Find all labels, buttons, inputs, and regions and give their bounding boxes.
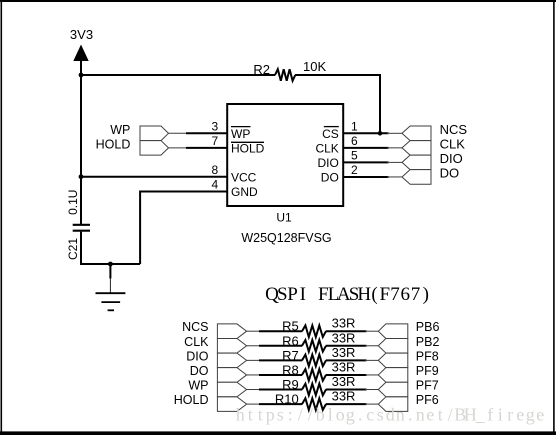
resistor R2 xyxy=(275,69,295,81)
wire R10 to PF6 xyxy=(326,403,367,405)
svg-text:b: b xyxy=(316,405,325,425)
wire C21 to GND net xyxy=(81,232,140,264)
svg-text:DIO: DIO xyxy=(186,349,209,363)
svg-text:33R: 33R xyxy=(332,316,356,331)
sheet border bottom bar xyxy=(0,431,556,435)
svg-text:f: f xyxy=(487,405,493,425)
resistor R10 33R xyxy=(302,398,326,410)
wire DO to R8 xyxy=(247,374,261,376)
junction ground tap xyxy=(108,262,113,267)
svg-text:/: / xyxy=(308,405,313,425)
port PB6 (bottom right) xyxy=(378,324,408,339)
port DIO (bottom left) xyxy=(217,353,246,368)
wire pin 6 to port CLK xyxy=(343,147,388,149)
wire pin 2 to port DO xyxy=(343,176,388,178)
svg-text:33R: 33R xyxy=(332,345,356,360)
wire 3V3 rail to VCC pin 8 xyxy=(81,176,227,178)
sheet border left xyxy=(1,0,3,433)
svg-text:HOLD: HOLD xyxy=(231,141,265,155)
svg-text::: : xyxy=(288,405,293,425)
resistor R5 33R xyxy=(302,325,326,337)
svg-text:U1: U1 xyxy=(276,211,292,225)
svg-text:DO: DO xyxy=(190,364,209,378)
svg-text:d: d xyxy=(386,405,395,425)
svg-text:c: c xyxy=(366,405,374,425)
port NCS (right) xyxy=(402,126,431,141)
svg-text:I: I xyxy=(300,284,306,305)
svg-text:WP: WP xyxy=(231,127,250,141)
svg-text:R9: R9 xyxy=(282,377,299,392)
svg-text:n: n xyxy=(416,405,425,425)
port DO (bottom left) xyxy=(217,368,246,383)
svg-text:7: 7 xyxy=(390,284,400,305)
svg-text:.: . xyxy=(358,405,363,425)
port PF7 (bottom right) xyxy=(378,382,408,397)
port PB2 (bottom right) xyxy=(378,339,408,354)
sheet border right xyxy=(553,0,555,433)
svg-text:PF7: PF7 xyxy=(416,379,439,393)
svg-text:DO: DO xyxy=(321,171,339,185)
svg-text:s: s xyxy=(377,405,384,425)
svg-text:PF9: PF9 xyxy=(416,364,439,378)
svg-text:HOLD: HOLD xyxy=(96,138,131,152)
wire 3V3 stem to VCC rail xyxy=(80,60,82,177)
svg-text:NCS: NCS xyxy=(182,320,208,334)
svg-text:WP: WP xyxy=(110,123,130,137)
svg-text:0.1U: 0.1U xyxy=(66,190,80,215)
capacitor C21 xyxy=(73,224,90,226)
svg-text:PB6: PB6 xyxy=(416,320,440,334)
wire WP to R9 xyxy=(247,389,261,391)
port PF6 (bottom right) xyxy=(378,397,408,412)
wire R6 to PB2 xyxy=(326,345,367,347)
svg-text:PB2: PB2 xyxy=(416,335,440,349)
svg-text:R2: R2 xyxy=(253,62,270,77)
wire CLK to R6 xyxy=(247,345,261,347)
svg-text:10K: 10K xyxy=(303,59,326,74)
svg-text:R5: R5 xyxy=(282,319,299,334)
port PF9 (bottom right) xyxy=(378,368,408,383)
svg-text:WP: WP xyxy=(188,379,208,393)
svg-text:6: 6 xyxy=(351,134,358,148)
resistor R7 33R xyxy=(302,355,326,367)
svg-text:s: s xyxy=(277,405,284,425)
svg-text:6: 6 xyxy=(401,284,411,305)
svg-text:5: 5 xyxy=(351,148,358,162)
svg-text:7: 7 xyxy=(212,134,219,148)
svg-text:C21: C21 xyxy=(66,238,80,260)
svg-text:h: h xyxy=(236,405,245,425)
svg-text:/: / xyxy=(448,405,453,425)
svg-text:NCS: NCS xyxy=(440,122,468,137)
svg-text:g: g xyxy=(346,405,355,425)
svg-text:l: l xyxy=(328,405,333,425)
svg-text:4: 4 xyxy=(212,178,219,192)
wire R5 to PB6 xyxy=(326,330,367,332)
svg-text:33R: 33R xyxy=(332,330,356,345)
wire NCS to R5 xyxy=(247,330,261,332)
port CLK (right) xyxy=(402,141,431,156)
svg-text:e: e xyxy=(516,405,524,425)
svg-text:n: n xyxy=(396,405,405,425)
svg-text:r: r xyxy=(507,405,513,425)
svg-text:PF8: PF8 xyxy=(416,349,439,363)
svg-text:2: 2 xyxy=(351,163,358,177)
port HOLD (left) xyxy=(140,141,169,156)
wire R9 to PF7 xyxy=(326,389,367,391)
svg-text:F: F xyxy=(380,284,391,305)
wire GND net to pin 4 xyxy=(140,192,227,265)
wire R2 to CS net xyxy=(295,75,380,133)
svg-text:CLK: CLK xyxy=(184,335,209,349)
sheet border top xyxy=(0,0,556,2)
svg-text:P: P xyxy=(287,284,298,305)
port DIO (right) xyxy=(402,155,431,170)
wire HOLD port to pin 7 xyxy=(169,147,188,149)
port DO (right) xyxy=(402,170,431,185)
resistor R9 33R xyxy=(302,384,326,396)
port PF8 (bottom right) xyxy=(378,353,408,368)
resistor R6 33R xyxy=(302,340,326,352)
svg-text:): ) xyxy=(423,284,429,305)
svg-text:DIO: DIO xyxy=(317,156,338,170)
junction VCC rail xyxy=(79,174,84,179)
power 3V3 symbol xyxy=(73,45,88,62)
watermark xyxy=(236,405,545,425)
wire WP port to pin 3 xyxy=(169,132,188,134)
svg-text:CS: CS xyxy=(322,127,339,141)
svg-text:CLK: CLK xyxy=(440,137,466,152)
wire HOLD to R10 xyxy=(247,403,261,405)
wire top rail to R2 xyxy=(81,74,275,76)
svg-text:t: t xyxy=(438,405,443,425)
wire pin 5 to port DIO xyxy=(343,161,388,163)
svg-text:R6: R6 xyxy=(282,333,299,348)
port CLK (bottom left) xyxy=(217,339,246,354)
wire rail to C21 xyxy=(80,177,82,224)
IC U1 body xyxy=(227,104,343,206)
title QSPI FLASH(F767) xyxy=(265,284,429,305)
svg-text:CLK: CLK xyxy=(315,141,338,155)
wire R8 to PF9 xyxy=(326,374,367,376)
svg-text:R8: R8 xyxy=(282,362,299,377)
svg-text:33R: 33R xyxy=(332,359,356,374)
svg-text:33R: 33R xyxy=(332,374,356,389)
svg-text:t: t xyxy=(248,405,253,425)
svg-text:DIO: DIO xyxy=(440,151,463,166)
svg-text:3V3: 3V3 xyxy=(70,27,93,42)
svg-text:1: 1 xyxy=(351,119,358,133)
port HOLD (bottom left) xyxy=(217,397,246,412)
ground symbol xyxy=(109,264,111,279)
svg-text:.: . xyxy=(408,405,413,425)
svg-text:R7: R7 xyxy=(282,348,299,363)
svg-text:i: i xyxy=(498,405,503,425)
svg-text:GND: GND xyxy=(231,185,258,199)
svg-text:(: ( xyxy=(371,284,377,305)
port NCS (bottom left) xyxy=(217,324,246,339)
svg-text:e: e xyxy=(426,405,434,425)
port WP (left) xyxy=(140,126,169,141)
svg-text:8: 8 xyxy=(212,163,219,177)
svg-text:t: t xyxy=(258,405,263,425)
svg-text:W25Q128FVSG: W25Q128FVSG xyxy=(241,231,331,245)
svg-text:7: 7 xyxy=(411,284,421,305)
svg-text:H: H xyxy=(357,284,371,305)
svg-text:e: e xyxy=(536,405,544,425)
wire DIO to R7 xyxy=(247,359,261,361)
svg-text:/: / xyxy=(298,405,303,425)
wire R7 to PF8 xyxy=(326,359,367,361)
junction 3V3 / top rail xyxy=(79,73,84,78)
resistor R8 33R xyxy=(302,369,326,381)
port WP (bottom left) xyxy=(217,382,246,397)
svg-text:p: p xyxy=(266,405,275,425)
svg-text:g: g xyxy=(526,405,535,425)
svg-text:_: _ xyxy=(475,405,486,425)
svg-text:S: S xyxy=(277,284,288,305)
svg-text:VCC: VCC xyxy=(231,170,257,184)
svg-text:HOLD: HOLD xyxy=(174,393,209,407)
svg-text:DO: DO xyxy=(440,166,460,181)
svg-text:o: o xyxy=(336,405,345,425)
svg-text:3: 3 xyxy=(212,119,219,133)
svg-text:33R: 33R xyxy=(332,389,356,404)
junction CS net xyxy=(378,131,383,136)
wire pin 1 to port NCS xyxy=(343,132,388,134)
